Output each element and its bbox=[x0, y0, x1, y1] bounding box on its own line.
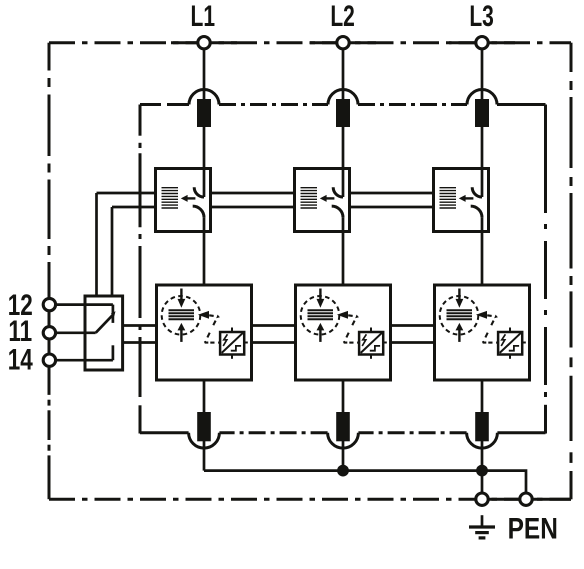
svg-text:14: 14 bbox=[8, 342, 33, 376]
svg-text:L2: L2 bbox=[330, 1, 354, 33]
svg-text:L1: L1 bbox=[191, 1, 215, 33]
svg-text:L3: L3 bbox=[469, 1, 493, 33]
svg-text:PEN: PEN bbox=[508, 511, 558, 545]
